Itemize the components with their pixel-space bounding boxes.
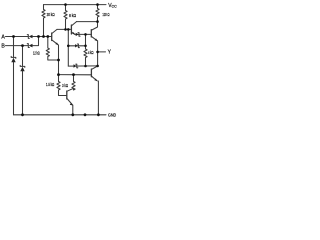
transistor Q2 <box>70 25 72 34</box>
diode D1 to Q4 base <box>75 33 92 35</box>
diode clamp B <box>20 65 25 67</box>
diode clamp A <box>11 56 16 58</box>
labels <box>1 3 117 118</box>
resistor R3 120 <box>96 5 99 22</box>
resistor R5 4k <box>84 34 87 66</box>
wire vertical from Q2 base node <box>67 29 69 66</box>
svg-text:Y: Y <box>108 50 112 56</box>
wire output Y stub <box>98 51 106 53</box>
resistor R6 1.5k <box>57 75 66 96</box>
wire clamp branch B <box>22 46 24 67</box>
wire input B <box>6 45 29 47</box>
wire input A <box>6 36 29 38</box>
transistor Q4 <box>90 30 92 37</box>
svg-text:4 kΩ: 4 kΩ <box>88 50 93 55</box>
wire clamp branch A <box>13 37 15 58</box>
transistor Q6 <box>66 91 68 99</box>
wire GND rail <box>14 114 107 116</box>
diode D2 <box>68 45 85 47</box>
svg-text:GND: GND <box>108 113 117 118</box>
svg-text:20 kΩ: 20 kΩ <box>47 12 55 17</box>
wire B to node riser <box>33 37 39 46</box>
wire Q2 collector to 120 node <box>77 21 98 23</box>
svg-text:3 kΩ: 3 kΩ <box>62 83 68 88</box>
transistor Q1 <box>51 33 53 41</box>
wire node N line <box>59 74 92 76</box>
resistor R2 8k <box>64 5 67 30</box>
junction dots <box>12 3 100 116</box>
svg-text:B: B <box>1 44 5 50</box>
diode D-A schottky input <box>27 35 29 39</box>
wire Q1 collector line <box>57 28 71 30</box>
resistor R1 20k <box>42 5 45 37</box>
wire Q1 emitter vertical <box>58 45 60 75</box>
transistor Q5 <box>90 69 92 77</box>
svg-text:1.5 kΩ: 1.5 kΩ <box>46 82 54 87</box>
svg-text:8 kΩ: 8 kΩ <box>69 13 76 18</box>
svg-text:VCC: VCC <box>108 3 117 9</box>
resistor R4 12k <box>46 37 58 61</box>
wire node line from A diode <box>33 36 52 38</box>
resistor R7 3k <box>67 75 75 92</box>
diode D3 output line <box>68 65 97 67</box>
diode D-B schottky input <box>27 44 29 48</box>
svg-text:A: A <box>1 34 5 40</box>
wire Vcc rail <box>44 4 107 6</box>
svg-text:120 Ω: 120 Ω <box>102 12 109 17</box>
svg-text:12 kΩ: 12 kΩ <box>33 50 40 55</box>
